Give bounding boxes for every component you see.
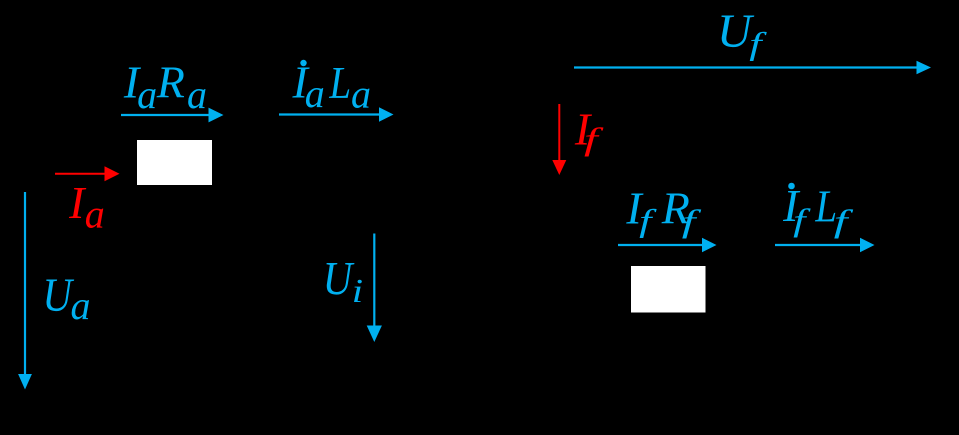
label IaRa	[123, 57, 207, 118]
svg-text:i: i	[352, 273, 363, 310]
svg-text:a: a	[85, 192, 105, 237]
label dot-IfLf	[782, 180, 854, 239]
label If (red)	[574, 103, 604, 156]
arrow IfRf	[618, 238, 717, 252]
label Ui	[323, 251, 363, 310]
svg-text:a: a	[137, 72, 157, 117]
arrow Ua	[18, 192, 32, 390]
label Ia (red)	[68, 177, 105, 237]
svg-text:a: a	[351, 72, 371, 117]
arrow Ui	[367, 234, 382, 343]
label Ua	[43, 268, 91, 328]
arrow Uf	[574, 61, 931, 74]
svg-text:U: U	[323, 251, 355, 305]
svg-text:L: L	[328, 58, 351, 109]
svg-text:R: R	[156, 57, 185, 108]
arrow dot-IfLf	[775, 238, 875, 252]
label Uf	[717, 5, 768, 61]
arrow If (red)	[552, 104, 566, 175]
svg-text:a: a	[187, 72, 207, 117]
label dot-IaLa	[292, 56, 372, 116]
arrow IaRa	[121, 108, 224, 123]
resistor Rf box	[631, 266, 706, 313]
label IfRf	[625, 183, 702, 239]
resistor Ra box	[137, 140, 212, 185]
arrow dot-IaLa	[279, 107, 394, 121]
svg-text:a: a	[71, 283, 91, 328]
arrow Ia (red)	[55, 166, 120, 181]
svg-text:a: a	[305, 71, 325, 116]
